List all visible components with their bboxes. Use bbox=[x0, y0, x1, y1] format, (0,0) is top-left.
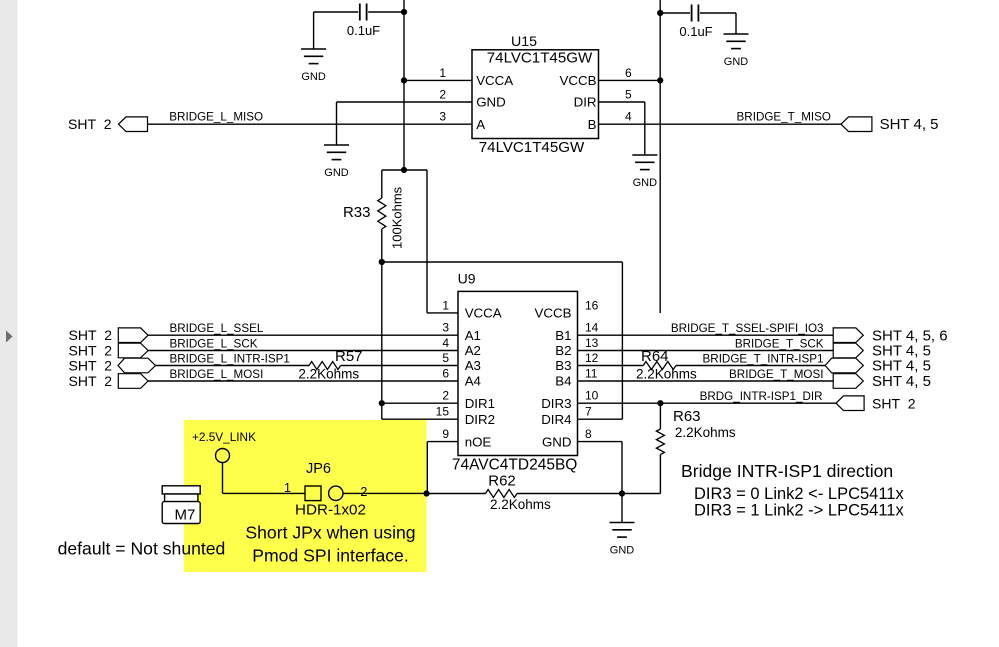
svg-text:VCCB: VCCB bbox=[535, 306, 572, 321]
svg-text:DIR2: DIR2 bbox=[465, 412, 495, 427]
wire DIR net horizontal bbox=[382, 261, 623, 263]
sheet connector BRIDGE_T_MISO (SHT 4,5) bbox=[841, 117, 872, 132]
wire BRIDGE_L_INTR-ISP1 to R57 bbox=[156, 365, 310, 367]
svg-text:A: A bbox=[476, 117, 485, 132]
wire cap left down to ground bbox=[313, 12, 315, 49]
wire U9 pin15 DIR2 bbox=[382, 418, 458, 420]
svg-text:DIR3: DIR3 bbox=[541, 396, 571, 411]
sheet connector BRIDGE_L_INTR-ISP1 (SHT 2) bbox=[118, 358, 156, 373]
svg-text:M7: M7 bbox=[175, 506, 196, 523]
svg-text:nOE: nOE bbox=[465, 434, 492, 449]
wire DIR net down to DIR4 bbox=[621, 262, 623, 419]
wire cap to junction bbox=[368, 11, 404, 13]
jumper JP6 pin2 pad (circle) bbox=[329, 486, 343, 500]
svg-text:VCCA: VCCA bbox=[465, 306, 502, 321]
svg-text:U15: U15 bbox=[511, 34, 537, 50]
IC U9 74AVC4TD245BQ body bbox=[458, 291, 578, 455]
wire U9 pin1 VCCA bbox=[427, 312, 458, 314]
svg-text:2: 2 bbox=[442, 389, 449, 403]
svg-text:100Kohms: 100Kohms bbox=[390, 186, 405, 249]
svg-text:74AVC4TD245BQ: 74AVC4TD245BQ bbox=[452, 456, 578, 473]
svg-text:1: 1 bbox=[442, 298, 449, 312]
ground GND (U15 pin5) bbox=[632, 155, 657, 170]
svg-text:HDR-1x02: HDR-1x02 bbox=[295, 502, 366, 519]
junction U15 pin1 VCCA bbox=[401, 77, 407, 83]
wire down to ground bbox=[735, 13, 737, 34]
svg-text:Short JPx when using: Short JPx when using bbox=[245, 523, 415, 543]
svg-text:9: 9 bbox=[442, 427, 449, 441]
svg-text:BRIDGE_L_INTR-ISP1: BRIDGE_L_INTR-ISP1 bbox=[170, 353, 290, 366]
svg-text:GND: GND bbox=[610, 545, 635, 557]
sheet connector BRIDGE_L_MOSI (SHT 2) bbox=[118, 374, 148, 389]
svg-text:4: 4 bbox=[625, 110, 632, 124]
wire R62 to GND node bbox=[517, 493, 622, 495]
wire BRIDGE_L_SCK to U9 bbox=[148, 350, 458, 352]
resistor R63 2.2Kohms (pull-down) bbox=[656, 403, 664, 493]
wire cap C-left to node bbox=[314, 11, 359, 13]
jumper JP6 pin1 pad (square) bbox=[305, 486, 321, 501]
svg-text:14: 14 bbox=[585, 321, 599, 335]
svg-text:3: 3 bbox=[442, 321, 449, 335]
wire BRIDGE_L_MOSI to U9 bbox=[148, 380, 458, 382]
svg-text:2: 2 bbox=[439, 88, 446, 102]
wire U9 pin7 DIR4 bbox=[578, 418, 623, 420]
resistor R64 2.2Kohms (series) bbox=[643, 362, 676, 370]
svg-text:DIR3 = 0 Link2 <- LPC5411x: DIR3 = 0 Link2 <- LPC5411x bbox=[694, 485, 904, 503]
wire U9 pin9 nOE bbox=[427, 441, 458, 443]
yellow highlight note box bbox=[184, 420, 427, 572]
svg-text:A4: A4 bbox=[465, 374, 481, 389]
svg-text:DIR3 = 1 Link2 -> LPC5411x: DIR3 = 1 Link2 -> LPC5411x bbox=[694, 502, 904, 520]
wire GND pin down bbox=[621, 442, 623, 494]
wire down to DIR2 bbox=[381, 403, 383, 419]
svg-text:BRIDGE_T_SSEL-SPIFI_IO3: BRIDGE_T_SSEL-SPIFI_IO3 bbox=[671, 322, 824, 335]
svg-text:GND: GND bbox=[542, 434, 572, 449]
svg-text:DIR: DIR bbox=[574, 95, 597, 110]
svg-text:74LVC1T45GW: 74LVC1T45GW bbox=[487, 49, 593, 66]
svg-text:R63: R63 bbox=[673, 408, 701, 425]
ground GND (under left cap) bbox=[301, 49, 326, 64]
wire U9 to connector BRIDGE_T_SCK bbox=[578, 350, 834, 352]
svg-text:0.1uF: 0.1uF bbox=[679, 24, 712, 39]
svg-text:2: 2 bbox=[360, 485, 367, 499]
svg-text:2.2Kohms: 2.2Kohms bbox=[675, 425, 736, 440]
svg-text:DIR4: DIR4 bbox=[541, 412, 571, 427]
svg-text:B2: B2 bbox=[555, 343, 571, 358]
svg-text:5: 5 bbox=[442, 351, 449, 365]
power symbol +2.5V_LINK bbox=[216, 449, 230, 494]
svg-text:BRIDGE_L_MISO: BRIDGE_L_MISO bbox=[169, 111, 263, 124]
svg-text:GND: GND bbox=[301, 71, 326, 83]
svg-text:GND: GND bbox=[476, 95, 506, 110]
wire U9 pin2 DIR1 bbox=[382, 402, 458, 404]
svg-text:2.2Kohms: 2.2Kohms bbox=[636, 367, 697, 382]
svg-text:12: 12 bbox=[585, 351, 599, 365]
wire cap to ground drop bbox=[700, 12, 736, 14]
svg-text:4: 4 bbox=[442, 336, 449, 350]
wire U15 pin6 VCCB bbox=[599, 79, 661, 81]
svg-text:B3: B3 bbox=[555, 358, 571, 373]
sheet connector BRDG_INTR-ISP1_DIR (SHT 2) bbox=[836, 396, 864, 411]
svg-text:+2.5V_LINK: +2.5V_LINK bbox=[192, 430, 256, 444]
capacitor 0.1uF (right) bbox=[692, 5, 699, 22]
wire down to ground symbol bbox=[621, 494, 623, 523]
wire R33 top horizontal bbox=[382, 169, 427, 171]
wire VCCB net vertical bbox=[659, 0, 661, 313]
wire nOE down to jumper net bbox=[426, 442, 428, 494]
wire junction to cap C-right bbox=[660, 12, 690, 14]
svg-text:SHT 4, 5: SHT 4, 5 bbox=[880, 116, 939, 133]
wire U15 pin5 DIR bbox=[599, 101, 645, 103]
wire DIR net down to DIR1 bbox=[381, 262, 383, 403]
resistor R33 100Kohms (vertical) bbox=[378, 170, 386, 262]
junction R33 top tee bbox=[401, 167, 407, 173]
wire power to JP6 pin1 bbox=[223, 492, 306, 494]
wire U15 pin1 VCCA bbox=[404, 79, 472, 81]
sheet connector BRIDGE_L_SCK (SHT 2) bbox=[118, 343, 148, 358]
svg-text:R57: R57 bbox=[335, 348, 363, 365]
svg-text:6: 6 bbox=[442, 367, 449, 381]
svg-text:1: 1 bbox=[284, 481, 291, 495]
junction R63 top bbox=[657, 400, 663, 406]
sheet connector BRIDGE_T_SSEL-SPIFI_IO3 (SHT 4, 5, 6) bbox=[833, 328, 863, 343]
wire R63 bottom to GND node bbox=[622, 493, 660, 495]
junction R33 bottom bbox=[379, 259, 385, 265]
sheet connector BRIDGE_L_MISO (SHT 2) bbox=[119, 117, 148, 132]
wire BRIDGE_L_MISO net to U15 pin3 A bbox=[148, 123, 472, 125]
wire R64 to connector BRIDGE_T_INTR-ISP1 bbox=[676, 365, 825, 367]
svg-text:2.2Kohms: 2.2Kohms bbox=[298, 367, 359, 382]
svg-text:GND: GND bbox=[724, 56, 749, 68]
sheet connector BRIDGE_T_SCK (SHT 4, 5) bbox=[833, 343, 863, 358]
svg-text:U9: U9 bbox=[458, 271, 476, 287]
svg-text:GND: GND bbox=[324, 167, 349, 179]
svg-text:R62: R62 bbox=[488, 473, 516, 490]
svg-text:6: 6 bbox=[625, 66, 632, 80]
wire U9 B3 to R64 bbox=[578, 365, 644, 367]
wire U9 to connector BRIDGE_T_SSEL-SPIFI_IO3 bbox=[578, 334, 834, 336]
svg-text:74LVC1T45GW: 74LVC1T45GW bbox=[479, 139, 585, 156]
svg-text:13: 13 bbox=[585, 336, 599, 350]
sheet connector BRIDGE_T_MOSI (SHT 4, 5) bbox=[833, 374, 863, 389]
wire down to U9 VCCA bbox=[426, 170, 428, 313]
svg-text:BRDG_INTR-ISP1_DIR: BRDG_INTR-ISP1_DIR bbox=[700, 390, 823, 403]
svg-text:SHT 2: SHT 2 bbox=[68, 116, 112, 132]
svg-text:SHT 4, 5: SHT 4, 5 bbox=[872, 373, 931, 390]
svg-text:DIR1: DIR1 bbox=[465, 396, 495, 411]
svg-text:11: 11 bbox=[585, 367, 598, 381]
junction nOE / JP6 / R62 bbox=[423, 490, 429, 496]
wire pin5 down to ground bbox=[644, 102, 646, 155]
sidebar expand arrow bbox=[6, 331, 13, 343]
svg-text:7: 7 bbox=[585, 405, 592, 419]
svg-text:15: 15 bbox=[436, 405, 450, 419]
svg-text:10: 10 bbox=[585, 389, 599, 403]
wire U9 pin8 GND bbox=[578, 441, 623, 443]
svg-text:BRIDGE_T_MISO: BRIDGE_T_MISO bbox=[737, 111, 831, 124]
junction node VCCA-net / cap bbox=[401, 9, 407, 15]
svg-text:A1: A1 bbox=[465, 328, 481, 343]
svg-text:SHT 4, 5: SHT 4, 5 bbox=[872, 358, 931, 375]
svg-text:0.1uF: 0.1uF bbox=[347, 23, 380, 38]
svg-text:B4: B4 bbox=[555, 374, 571, 389]
svg-text:GND: GND bbox=[633, 177, 658, 189]
wire U15 pin2 GND bbox=[337, 101, 473, 103]
svg-text:SHT 2: SHT 2 bbox=[69, 373, 113, 389]
mounting hole M7 bbox=[162, 486, 200, 524]
svg-text:BRIDGE_T_SCK: BRIDGE_T_SCK bbox=[735, 338, 824, 351]
svg-text:BRIDGE_T_INTR-ISP1: BRIDGE_T_INTR-ISP1 bbox=[703, 353, 824, 366]
junction GND node bbox=[619, 490, 625, 496]
svg-text:Pmod SPI interface.: Pmod SPI interface. bbox=[252, 546, 408, 566]
svg-text:SHT 2: SHT 2 bbox=[872, 395, 916, 411]
wire U15 pin4 B to BRIDGE_T_MISO bbox=[599, 123, 842, 125]
resistor R57 2.2Kohms (series) bbox=[309, 362, 341, 370]
op-amp/IC U15 74LVC1T45GW body bbox=[472, 50, 599, 139]
svg-text:A3: A3 bbox=[465, 358, 481, 373]
ground GND (R62/R63/pin8) bbox=[610, 523, 635, 538]
svg-text:default = Not shunted: default = Not shunted bbox=[58, 539, 226, 559]
ground GND (under right cap) bbox=[724, 34, 749, 49]
wire U9 DIR3 to BRDG_INTR-ISP1_DIR connector bbox=[578, 402, 837, 404]
wire U9 to connector BRIDGE_T_MOSI bbox=[578, 380, 834, 382]
svg-text:1: 1 bbox=[439, 66, 446, 80]
svg-text:VCCA: VCCA bbox=[476, 73, 513, 88]
sheet connector BRIDGE_T_INTR-ISP1 (SHT 4, 5) bbox=[825, 358, 863, 373]
junction U15 pin6 VCCB bbox=[657, 77, 663, 83]
svg-text:SHT 2: SHT 2 bbox=[69, 327, 113, 343]
svg-text:5: 5 bbox=[625, 88, 632, 102]
svg-text:VCCB: VCCB bbox=[560, 73, 597, 88]
wire BRIDGE_L_SSEL to U9 bbox=[148, 334, 458, 336]
junction DIR1 tee bbox=[379, 400, 385, 406]
ground GND (U15 pin2) bbox=[324, 145, 349, 160]
wire R57 to U9 A3 bbox=[341, 365, 458, 367]
junction node VCCB-net / cap bbox=[657, 10, 663, 16]
svg-text:R64: R64 bbox=[641, 348, 669, 365]
svg-text:2.2Kohms: 2.2Kohms bbox=[490, 497, 551, 512]
sidebar panel bbox=[0, 0, 18, 647]
svg-text:B1: B1 bbox=[555, 328, 571, 343]
wire VCCA net vertical bbox=[403, 0, 405, 170]
svg-text:JP6: JP6 bbox=[306, 461, 331, 477]
svg-text:BRIDGE_L_MOSI: BRIDGE_L_MOSI bbox=[170, 368, 264, 381]
svg-text:BRIDGE_L_SCK: BRIDGE_L_SCK bbox=[170, 338, 258, 351]
svg-text:BRIDGE_T_MOSI: BRIDGE_T_MOSI bbox=[729, 368, 823, 381]
capacitor 0.1uF (left) bbox=[360, 4, 367, 21]
svg-text:BRIDGE_L_SSEL: BRIDGE_L_SSEL bbox=[170, 322, 264, 335]
svg-text:B: B bbox=[588, 117, 597, 132]
wire JP6 pin2 to junction bbox=[343, 492, 427, 494]
wire pin2 down to ground bbox=[336, 102, 338, 145]
svg-text:Bridge INTR-ISP1 direction: Bridge INTR-ISP1 direction bbox=[681, 461, 893, 481]
svg-text:8: 8 bbox=[585, 427, 592, 441]
svg-text:SHT 2: SHT 2 bbox=[69, 343, 113, 359]
svg-text:R33: R33 bbox=[343, 204, 371, 221]
sheet connector BRIDGE_L_SSEL (SHT 2) bbox=[118, 328, 148, 343]
svg-text:16: 16 bbox=[585, 298, 599, 312]
svg-text:A2: A2 bbox=[465, 343, 481, 358]
svg-text:3: 3 bbox=[439, 110, 446, 124]
wire junction to R62 bbox=[427, 493, 486, 495]
svg-text:SHT 2: SHT 2 bbox=[69, 358, 113, 374]
